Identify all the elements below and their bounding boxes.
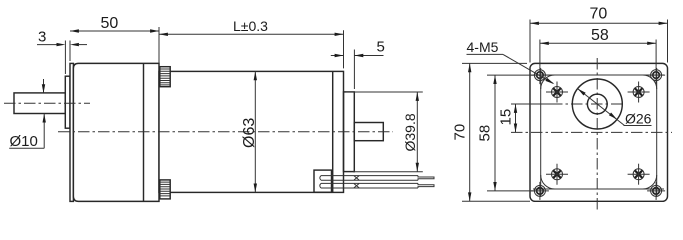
gearbox seam [143,63,145,201]
terminal block [314,170,332,192]
dimension 3 [37,29,87,75]
dimension 50 [70,15,159,63]
dimension 70 left [452,63,531,201]
wire 1 [320,176,434,181]
label 4-M5 with leader [467,39,555,84]
motor seam [332,71,334,192]
screw bottom-left [546,164,568,185]
dimension L±0.3 [159,18,344,68]
wire 2 [320,183,434,188]
gearbox body [73,63,159,201]
horizontal centerline [511,131,672,133]
output shaft centerline [4,102,90,104]
corner hole M5 bottom-left [531,182,549,200]
screw bottom-right [628,164,650,185]
screw top-right [628,82,650,103]
dimension Ø63 [241,71,258,192]
front plate [70,63,73,201]
svg-text:58: 58 [591,27,609,44]
svg-text:15: 15 [498,109,515,126]
dimension Ø39.8 [346,92,423,172]
rear boss [344,92,355,172]
svg-text:Ø10: Ø10 [10,133,38,150]
gearbox housing behind flange [533,68,664,197]
shaft axis centerline [511,103,623,105]
knurled screw bottom [160,180,170,199]
svg-text:L±0.3: L±0.3 [233,18,268,34]
vertical centerline [596,58,598,212]
svg-text:Ø63: Ø63 [241,118,258,148]
knurled screw top [160,67,170,87]
output shaft circle [587,94,607,114]
dimension 58 left [477,75,535,191]
svg-text:Ø26: Ø26 [625,111,652,127]
dimension Ø10 leader [9,79,46,150]
svg-text:70: 70 [590,6,608,23]
dimension 5 [331,39,385,90]
label Ø26 with diameter leader [578,89,652,127]
dimension 15 [498,104,559,132]
output shaft [14,93,65,114]
svg-text:3: 3 [38,29,46,46]
screw top-left [546,82,568,103]
flange plate [530,63,668,201]
boss circle Ø26 [572,79,622,129]
dimension 58 top [540,27,656,66]
front boss [65,76,70,128]
svg-text:58: 58 [477,125,494,142]
corner hole M5 top-right [647,66,665,84]
corner hole M5 top-left [531,66,549,84]
rear shaft stub [354,123,383,141]
svg-text:5: 5 [377,39,385,56]
svg-text:Ø39.8: Ø39.8 [402,113,418,151]
svg-text:4-M5: 4-M5 [467,39,499,55]
motor body [159,71,344,192]
main centerline [58,131,393,133]
svg-text:50: 50 [101,15,119,32]
dimension 70 top [530,6,668,63]
svg-text:70: 70 [452,124,469,141]
corner hole M5 bottom-right [647,182,665,200]
